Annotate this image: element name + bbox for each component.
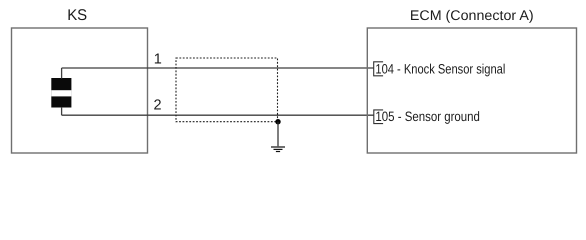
svg-text:104 - Knock Sensor signal: 104 - Knock Sensor signal [375,62,505,77]
svg-text:105 - Sensor ground: 105 - Sensor ground [375,109,480,124]
node: shield-to-ground junction [275,119,280,124]
ECM box [367,28,576,153]
svg-text:KS: KS [67,7,87,24]
svg-text:2: 2 [154,98,162,114]
ECM terminal 105 (pin box) [374,110,383,124]
ground [271,147,285,152]
knock sensor element (piezo) [51,78,71,108]
ECM terminal 104 (pin box) [374,62,383,76]
svg-text:1: 1 [154,52,162,68]
wire 2: KS pin 2 to ECM terminal 105 [62,114,374,116]
cable shield (dashed) [176,58,278,122]
wire 1: KS pin 1 to ECM terminal 104 [62,67,374,69]
wire: shield drain to ground [277,122,279,147]
wire: sensor bottom stub [61,107,63,115]
KS connector box [12,28,148,153]
svg-text:ECM (Connector A): ECM (Connector A) [410,7,534,23]
wire: sensor top stub [61,68,63,79]
